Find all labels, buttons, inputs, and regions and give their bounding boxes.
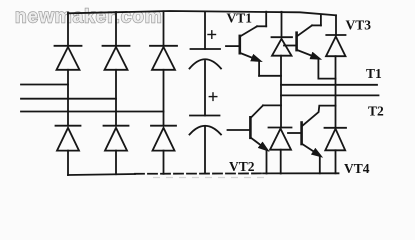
wire rectifier leg 1 top bbox=[67, 13, 69, 46]
node T1 output line bbox=[281, 84, 377, 86]
wire input phase line 3 bbox=[21, 111, 164, 113]
diode rectifier top leg3 bbox=[150, 46, 177, 70]
wire bottom DC rail right bbox=[263, 172, 339, 174]
wire rectifier leg 3 middle bbox=[163, 70, 165, 126]
wire inverter leg2 spine bottom bbox=[335, 150, 337, 173]
diode rectifier bottom leg2 bbox=[104, 126, 129, 151]
wire inverter leg1 spine upper bbox=[281, 12, 283, 37]
diode freewheel of VT3 bbox=[326, 35, 346, 56]
capacitor C1 bbox=[190, 49, 222, 69]
diode rectifier top leg2 bbox=[103, 46, 130, 70]
transistor VT1 bbox=[226, 12, 281, 76]
wire inverter leg1 spine middle bbox=[280, 56, 282, 128]
diode freewheel of VT4 bbox=[325, 128, 347, 151]
wire input phase line 2 bbox=[21, 98, 116, 100]
wire top DC rail bbox=[68, 11, 336, 15]
wire input phase line 1 bbox=[21, 84, 68, 86]
wire between capacitors bbox=[204, 61, 206, 116]
svg-text:VT2: VT2 bbox=[229, 159, 255, 174]
wire rectifier leg 3 top bbox=[163, 11, 165, 46]
wire bottom DC rail middle dashed bbox=[135, 172, 263, 174]
wire DC link branch bottom bbox=[204, 127, 206, 174]
wire DC link branch top bbox=[204, 12, 206, 49]
svg-text:VT3: VT3 bbox=[346, 18, 372, 33]
svg-text:T2: T2 bbox=[368, 104, 384, 119]
svg-text:VT4: VT4 bbox=[344, 161, 370, 176]
svg-text:T1: T1 bbox=[366, 66, 382, 81]
wire inverter leg1 spine bottom bbox=[280, 150, 282, 174]
polarity plus C2 bbox=[209, 93, 217, 101]
wire rectifier leg 1 middle bbox=[67, 70, 69, 126]
node T2 output line bbox=[281, 94, 379, 96]
wire rectifier leg 2 bottom bbox=[115, 151, 117, 175]
wire rectifier leg 2 top bbox=[115, 12, 117, 46]
wire rectifier leg 1 bottom bbox=[67, 151, 69, 175]
wire faint scan artifact below bottom rail bbox=[153, 177, 268, 179]
diode freewheel of VT1 bbox=[272, 37, 293, 56]
polarity plus C1 bbox=[208, 31, 216, 39]
diode freewheel of VT2 bbox=[269, 128, 292, 150]
diode rectifier top leg1 bbox=[55, 46, 82, 70]
diode rectifier bottom leg1 bbox=[56, 126, 81, 151]
transistor VT4 bbox=[288, 106, 336, 174]
capacitor C2 bbox=[190, 116, 222, 135]
wire rectifier leg 3 bottom bbox=[163, 151, 165, 174]
wire inverter leg2 spine middle bbox=[335, 56, 337, 128]
svg-text:VT1: VT1 bbox=[227, 11, 253, 26]
wire rectifier leg 2 middle bbox=[115, 70, 117, 126]
diode rectifier bottom leg3 bbox=[151, 126, 176, 151]
transistor VT2 bbox=[228, 105, 282, 173]
svg-text:newmaker.com: newmaker.com bbox=[15, 7, 163, 28]
transistor VT3 bbox=[284, 15, 336, 79]
wire inverter leg2 spine upper bbox=[335, 15, 337, 35]
wire bottom DC rail left bbox=[68, 174, 135, 175]
